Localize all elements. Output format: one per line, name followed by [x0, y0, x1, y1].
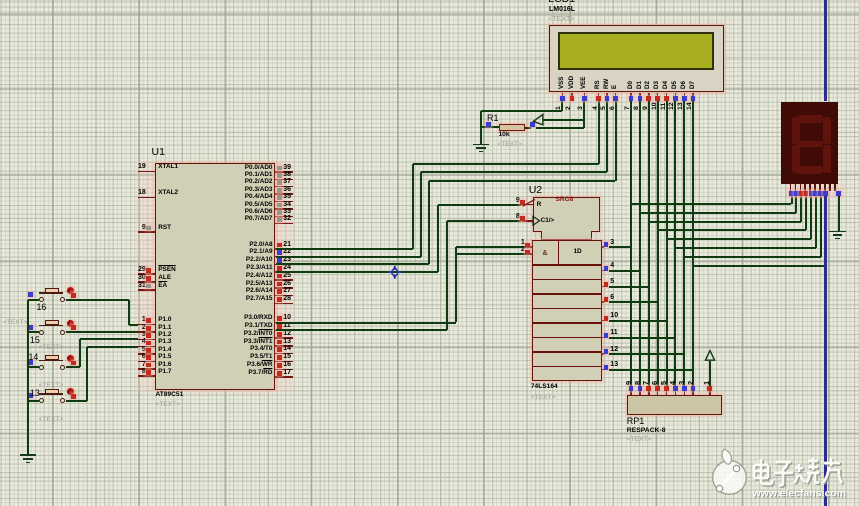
- LCD pin 6 E name: [612, 85, 618, 89]
- U1 pin 8 (P1.7) stub: [138, 375, 156, 377]
- wire U2 Q1 to data column: [609, 270, 640, 272]
- button S1 state square: [71, 293, 76, 298]
- button S3 left terminal: [39, 365, 44, 370]
- RP1 pin 9: [630, 390, 632, 395]
- U2 label SRG8: [556, 197, 574, 204]
- LCD pin 4 stub: [598, 93, 600, 97]
- 7seg pin 2 stub: [795, 184, 797, 191]
- LCD pin 11 square: [664, 96, 669, 101]
- RP1 pin 6: [657, 390, 659, 395]
- U2 label C1/: [541, 218, 555, 224]
- wire data column D6 (LCD to RP1): [683, 101, 685, 388]
- button S3 cap: [45, 355, 59, 360]
- button S2 left terminal: [39, 330, 44, 335]
- LCD pin 8 square: [638, 96, 643, 101]
- RP1 pin 3: [684, 390, 686, 395]
- U2 pin 8 CLK: [522, 220, 533, 222]
- 7seg pin 7 stub: [819, 184, 821, 191]
- U1 pin 9 (RST) stub: [138, 231, 156, 233]
- U2 output pin 6 stub: [602, 301, 605, 303]
- LCD pin 2 number: [566, 107, 573, 111]
- U1 pin 21 stub: [275, 248, 293, 250]
- LCD pin 9 square: [646, 96, 651, 101]
- LCD pin 1 VSS name: [559, 76, 565, 88]
- LCD pin 11 D4 name: [663, 81, 669, 89]
- LCD pin 2 square: [570, 96, 575, 101]
- LCD pin 11 stub: [666, 93, 668, 97]
- button S3 wire square: [28, 360, 33, 365]
- LCD pin 2 stub: [571, 93, 573, 97]
- U2 property text: [531, 395, 556, 402]
- RP1 reference label: [627, 417, 645, 426]
- LCD pin 5 square: [605, 96, 610, 101]
- 7seg pin 6 square: [813, 191, 818, 196]
- RP1 body: [627, 395, 722, 416]
- U1 pin 25 stub: [275, 279, 293, 281]
- U1 pin 28 stub: [275, 303, 293, 305]
- 7seg pin 5 square: [809, 191, 814, 196]
- wire D5 branch to 7seg: [675, 247, 815, 249]
- LCD pin 9 number: [643, 107, 650, 111]
- power terminal VCC at RP1 pin 1: [702, 348, 720, 364]
- U1 pin 14 stub: [275, 353, 293, 355]
- wire data column D2 (LCD to RP1): [648, 101, 650, 388]
- button S3 state square: [71, 361, 76, 366]
- ground GND1 (buttons): [20, 454, 36, 456]
- wire R1 right terminal to VEE net: [536, 127, 585, 129]
- RP1 pin 7: [648, 390, 650, 395]
- 7seg segment e: [792, 145, 800, 173]
- U1 left pin-area highlight: [136, 161, 156, 392]
- 7seg pin 4 stub: [804, 184, 806, 191]
- U1 pin 32 stub: [275, 223, 293, 225]
- wire U2 Q4 to data column: [609, 320, 667, 322]
- U1 property text: [156, 402, 181, 409]
- wire D7 branch to 7seg: [693, 265, 825, 267]
- button S2 actuator: [67, 320, 74, 327]
- R1 right terminal square: [530, 122, 535, 127]
- 7seg common pin square: [836, 191, 841, 196]
- LCD pin 14 stub: [692, 93, 694, 97]
- U1 pin 16 stub: [275, 369, 293, 371]
- U2 cell divider: [532, 264, 602, 265]
- U2 output pin 13 stub: [602, 369, 605, 371]
- LCD pin 14 number: [687, 103, 694, 111]
- wire blue net below 7seg: [824, 196, 826, 506]
- LCD pin 4 number: [593, 107, 600, 111]
- U2 label 1D: [574, 249, 582, 255]
- LCD pin 5 stub: [606, 93, 608, 97]
- U2 cell divider: [532, 293, 602, 294]
- LCD pin 10 D3 name: [654, 81, 660, 89]
- U2 label R: [537, 202, 542, 208]
- LCD pin 12 square: [673, 96, 678, 101]
- LCD pin 7 number: [625, 107, 632, 111]
- LCD pin 9 D2 name: [645, 81, 651, 89]
- wire P2.2 to LCD E: [276, 263, 429, 265]
- wire U2 Q7 to data column: [609, 369, 694, 371]
- LCD pin 12 stub: [675, 93, 677, 97]
- wire bus to button: [28, 400, 39, 402]
- U2 output pin 10 stub: [602, 320, 605, 322]
- button S4 state square: [71, 394, 76, 399]
- wire button3 to P1.2: [66, 366, 80, 368]
- RP1 pin 2: [692, 390, 694, 395]
- LCD pin 13 square: [682, 96, 687, 101]
- wire data column D5 (LCD to RP1): [674, 101, 676, 388]
- LCD pin 13 D6 name: [681, 81, 687, 89]
- wire button2 to P1.1: [66, 331, 138, 333]
- U1 pin 26 stub: [275, 287, 293, 289]
- button label 13: [30, 389, 40, 398]
- wire button4 to P1.3: [66, 400, 87, 402]
- RP1 pin 8: [639, 390, 641, 395]
- U1 pin 19 (XTAL1) stub: [138, 171, 156, 173]
- LCD pin 6 stub: [615, 93, 617, 97]
- 7seg pin 10 stub: [834, 184, 836, 191]
- 7seg segment d: [797, 166, 823, 174]
- button S4 wire square: [28, 393, 33, 398]
- button S4 right terminal: [60, 398, 65, 403]
- U1 pin 15 stub: [275, 361, 293, 363]
- U2 cell divider: [532, 279, 602, 280]
- button S2 wire square: [28, 325, 33, 330]
- LCD pin 7 stub: [630, 93, 632, 97]
- LCD pin 8 number: [634, 107, 641, 111]
- wire D1 branch to 7seg: [640, 212, 797, 214]
- LCD pin 3 VEE name: [581, 76, 587, 88]
- U1 pin 1 (P1.0) stub: [138, 324, 156, 326]
- button S2 state square: [71, 325, 76, 330]
- wire P2.0 to LCD RS: [276, 248, 413, 250]
- 7seg pin 4 square: [804, 191, 809, 196]
- wire bus to button: [28, 331, 39, 333]
- LCD1 body: [549, 25, 724, 92]
- 7seg pin 5 stub: [809, 184, 811, 191]
- wire 7seg common to ground: [838, 196, 840, 231]
- U2 reference label: [529, 185, 542, 196]
- U2 part-number text 74LS164: [531, 384, 558, 391]
- button S1 contact bar: [39, 292, 63, 294]
- U2 register block: [532, 240, 602, 381]
- wire data column D3 (LCD to RP1): [657, 101, 659, 388]
- U2 cell divider: [532, 322, 602, 323]
- 7seg segment a: [797, 115, 823, 123]
- U1 pin 34 stub: [275, 208, 293, 210]
- wire P3.1 to U2 CLK pin8: [276, 329, 447, 331]
- U1 pin 11 stub: [275, 330, 293, 332]
- wire RP1 pin1 to power: [709, 361, 711, 386]
- 7seg pin 9 stub: [829, 184, 831, 191]
- wire R1 left lead: [481, 126, 499, 128]
- LCD pin 3 number: [578, 107, 585, 111]
- U1 pin 29 (pin) stub: [138, 273, 156, 275]
- RP1 part number RESPACK-8: [627, 428, 666, 435]
- U2 output pin 11 stub: [602, 337, 605, 339]
- U2 clock edge triangle: [532, 214, 544, 228]
- U1 pin 18 (XTAL2) stub: [138, 197, 156, 199]
- LCD pin 12 number: [669, 103, 676, 111]
- 7seg pin 8 stub: [824, 184, 826, 191]
- U1 reference label: [152, 147, 165, 158]
- wire bus to button: [28, 366, 39, 368]
- wire P3.0 to U2 data pins 1-2: [276, 322, 456, 324]
- U2 output pin 4 stub: [602, 270, 605, 272]
- LCD pin 5 RW name: [604, 79, 610, 89]
- wire U2 Q2 to data column: [609, 286, 649, 288]
- 7seg segment g: [797, 141, 823, 148]
- wire U2 Q3 to data column: [609, 301, 658, 303]
- wire data column D7 (LCD to RP1): [692, 101, 694, 388]
- wire U2 Q0 to data column: [609, 246, 632, 248]
- resistor R1 label: [487, 114, 499, 123]
- U2 cell divider: [532, 308, 602, 309]
- RP1 property text: [627, 437, 652, 444]
- U1 pin 35 stub: [275, 201, 293, 203]
- wire LCD VSS to ground net: [561, 101, 563, 111]
- button S2 cap: [45, 320, 59, 325]
- U1 pin 23 stub: [275, 264, 293, 266]
- U1 pin 6 (P1.5) stub: [138, 361, 156, 363]
- U2 label &amp;: [543, 250, 548, 257]
- wire blue net above 7seg: [824, 0, 826, 101]
- U2 control block tab: [541, 231, 592, 241]
- 7seg pin 6 stub: [814, 184, 816, 191]
- RP1 pin 1: [709, 390, 711, 395]
- LCD pin 6 square: [613, 96, 618, 101]
- U2 divider between AND and 1D cells: [558, 240, 559, 265]
- U2 output pin 3 stub: [602, 246, 605, 248]
- ground GND3 (7seg common): [829, 231, 845, 233]
- button S3 contact bar: [39, 360, 63, 362]
- ground GND2 (R1 / LCD VSS): [473, 144, 489, 146]
- button property text 4: [39, 417, 64, 424]
- LCD pin 10 number: [652, 103, 659, 111]
- U1 pin 39 stub: [275, 171, 293, 173]
- U1 pin 12 stub: [275, 337, 293, 339]
- watermark logo and text: [702, 444, 859, 506]
- 7seg pin 2 square: [794, 191, 799, 196]
- LCD pin 3 square: [582, 96, 587, 101]
- LCD pin 9 stub: [648, 93, 650, 97]
- wire U2 Q5 to data column: [609, 337, 676, 339]
- LCD pin 6 number: [610, 107, 617, 111]
- R1 left terminal square: [486, 122, 491, 127]
- wire LCD VEE down: [583, 101, 585, 128]
- wire terminal arrow to VEE net: [543, 119, 585, 121]
- LCD pin 10 square: [655, 96, 660, 101]
- button S4 actuator: [67, 388, 74, 395]
- U1 pin 7 (P1.6) stub: [138, 368, 156, 370]
- LCD1 property text: [548, 16, 574, 23]
- U1 right pin-area highlight: [275, 161, 294, 392]
- U1 pin 27 stub: [275, 295, 293, 297]
- U2 pin 2 B: [525, 253, 533, 255]
- button label 15: [30, 336, 40, 345]
- button property text 1: [3, 320, 28, 327]
- LCD pin 3 stub: [584, 93, 586, 97]
- wire D4 branch to 7seg: [667, 238, 811, 240]
- LCD pin 8 D1 name: [637, 81, 643, 89]
- LCD1 part number LM016L: [549, 6, 575, 13]
- LCD pin 1 square: [560, 96, 565, 101]
- 7seg pin-row highlight: [786, 184, 845, 198]
- wire P2.1 to LCD RW: [276, 256, 421, 258]
- wire data column D1 (LCD to RP1): [639, 101, 641, 388]
- LCD pin 4 square: [596, 96, 601, 101]
- U2 control block: [533, 197, 601, 232]
- wire D6 branch to 7seg: [684, 256, 820, 258]
- 7seg pin 1 square: [789, 191, 794, 196]
- LCD pin 7 D0 name: [628, 81, 634, 89]
- button S1 wire square: [28, 292, 33, 297]
- 7seg segment c: [823, 145, 831, 173]
- button S4 cap: [45, 389, 59, 394]
- LCD pin 4 RS name: [595, 80, 601, 89]
- U2 pin 9 polarity dash: [521, 196, 537, 209]
- R1 property text: [498, 142, 523, 149]
- mcu U1 AT89C51 body: [155, 163, 275, 390]
- U1 pin 31 (pin) stub: [138, 289, 156, 291]
- button S2 contact bar: [39, 325, 63, 327]
- U1 pin 22 stub: [275, 256, 293, 258]
- U1 pin 33 stub: [275, 216, 293, 218]
- LCD pin 14 square: [691, 96, 696, 101]
- LCD pin 10 stub: [657, 93, 659, 97]
- button S4 left terminal: [39, 398, 44, 403]
- U2 pin 1 A: [525, 246, 533, 248]
- button property text 2: [39, 345, 64, 352]
- U1 pin 37 stub: [275, 186, 293, 188]
- LCD pin 2 VDD name: [569, 76, 575, 89]
- button label 16: [37, 303, 47, 312]
- LCD pin 5 number: [601, 107, 608, 111]
- wire button1 to P1.0: [66, 299, 129, 301]
- RP1 pin 4: [675, 390, 677, 395]
- U1 pin 36 stub: [275, 193, 293, 195]
- RP1 pin 5: [666, 390, 668, 395]
- U1 pin 13 stub: [275, 345, 293, 347]
- 7seg display body: [781, 102, 838, 184]
- U1 pin 10 stub: [275, 322, 293, 324]
- LCD pin 8 stub: [639, 93, 641, 97]
- wire data column D0 (LCD to RP1): [630, 101, 632, 388]
- button S1 cap: [45, 288, 59, 293]
- U1 pin 2 (P1.1) stub: [138, 331, 156, 333]
- LCD pin 14 D7 name: [690, 81, 696, 89]
- sheet origin marker: [387, 264, 403, 280]
- U2 output pin 5 stub: [602, 286, 605, 288]
- wire P2.3 to U2 MR pin9: [276, 271, 438, 273]
- wire D3 branch to 7seg: [658, 229, 806, 231]
- LCD pin 7 square: [629, 96, 634, 101]
- U1 pin 4 (P1.3) stub: [138, 346, 156, 348]
- 7seg segment b: [823, 117, 831, 145]
- LCD pin 1 stub: [562, 93, 564, 97]
- button S1 left terminal: [39, 297, 44, 302]
- wire data column D4 (LCD to RP1): [666, 101, 668, 388]
- LCD1 screen: [558, 32, 713, 70]
- U1 pin 5 (P1.4) stub: [138, 353, 156, 355]
- wire bus to button: [28, 299, 39, 301]
- wire R1 right lead: [525, 127, 531, 129]
- LCD pin 11 number: [661, 103, 668, 110]
- LCD pin 13 stub: [684, 93, 686, 97]
- U1 pin 3 (P1.2) stub: [138, 339, 156, 341]
- button S3 right terminal: [60, 365, 65, 370]
- resistor R1 body: [499, 124, 525, 131]
- button S3 actuator: [67, 355, 74, 362]
- LCD1 reference label: [548, 0, 575, 4]
- U2 output pin 12 stub: [602, 353, 605, 355]
- U2 cell divider: [532, 337, 602, 338]
- svg-text:www.elecfans.com: www.elecfans.com: [752, 488, 847, 500]
- LCD pin 13 number: [678, 103, 685, 111]
- button S1 right terminal: [60, 297, 65, 302]
- U1 pin 17 stub: [275, 376, 293, 378]
- U1 part-number text AT89C51: [156, 392, 184, 399]
- U2 cell divider: [532, 351, 602, 352]
- wire D2 branch to 7seg: [649, 221, 801, 223]
- U1 pin 30 (ALE) stub: [138, 281, 156, 283]
- 7seg pin 3 stub: [800, 184, 802, 191]
- wire D0 branch to 7seg: [631, 203, 791, 205]
- U1 pin 24 stub: [275, 271, 293, 273]
- U2 cell divider: [532, 366, 602, 367]
- button label 14: [29, 353, 39, 362]
- terminal arrow at R1 wiper: [530, 111, 548, 129]
- U2 pin 9 MR: [522, 204, 533, 206]
- button S4 contact bar: [39, 393, 63, 395]
- 7seg pin 7 square: [818, 191, 823, 196]
- LCD pin 1 number: [556, 107, 563, 111]
- 7seg segment f: [792, 117, 800, 145]
- LCD pin 12 D5 name: [672, 81, 678, 89]
- 7seg pin 1 stub: [790, 184, 792, 191]
- button property text 3: [39, 383, 64, 390]
- R1 value 10k: [499, 132, 510, 139]
- button S2 right terminal: [60, 330, 65, 335]
- wire U2 Q6 to data column: [609, 353, 685, 355]
- 7seg pin 3 square: [799, 191, 804, 196]
- U1 pin 38 stub: [275, 179, 293, 181]
- button S1 actuator: [67, 287, 74, 294]
- wire button bus vertical: [27, 300, 29, 455]
- 7seg pin 8 square: [823, 191, 828, 196]
